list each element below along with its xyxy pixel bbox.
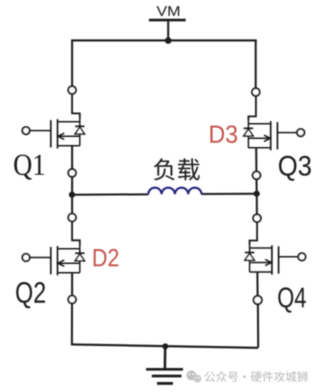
junction node A xyxy=(69,192,75,198)
wire Q3 drain jog xyxy=(248,96,256,120)
label D2 body diode xyxy=(94,249,107,266)
wire Q4 source lead xyxy=(256,272,258,296)
transistor Q1 N-MOSFET with body diode xyxy=(50,120,52,147)
top power rail xyxy=(71,39,257,41)
label D3 body diode xyxy=(210,126,224,143)
watermark text 公众号·硬件攻城狮 xyxy=(205,371,308,382)
inductor load coil xyxy=(148,188,201,195)
wire to node A xyxy=(71,177,73,195)
label 负载 (load) xyxy=(154,158,200,180)
wire Q4 drain jog xyxy=(250,222,258,244)
junction dot ground xyxy=(162,343,168,349)
transistor Q4 N-MOSFET with body diode xyxy=(278,246,280,273)
wire Q2 drain jog xyxy=(72,221,80,245)
wire to bottom rail xyxy=(71,303,73,344)
wire load to node B xyxy=(202,193,257,195)
watermark WeChat icon xyxy=(186,370,201,382)
wire Q1 source lead xyxy=(71,146,73,169)
ground symbol xyxy=(164,346,167,368)
label Q3 xyxy=(279,156,296,181)
terminal circle above Q2 xyxy=(68,214,76,222)
wire Q3 source lead xyxy=(255,148,257,172)
label Q1 xyxy=(14,155,32,180)
wire node A to load xyxy=(72,193,148,195)
terminal circle below Q3 xyxy=(253,171,261,179)
wire top rail to Q3 xyxy=(255,40,257,88)
transistor Q3 N-MOSFET with body diode xyxy=(276,122,278,149)
wire top rail to Q1 xyxy=(71,40,73,86)
wire to bottom rail xyxy=(257,304,259,347)
junction node B xyxy=(254,191,260,197)
wire node B to Q4 xyxy=(256,194,258,215)
terminal circle above Q3 xyxy=(252,88,260,96)
terminal circle above Q4 xyxy=(253,214,261,222)
label Q4 xyxy=(278,287,293,312)
terminal circle below Q1 xyxy=(68,169,76,177)
wire Q2 source lead xyxy=(71,273,73,296)
bottom rail xyxy=(71,344,258,347)
label Q2 xyxy=(16,282,32,308)
terminal circle above Q1 xyxy=(68,86,76,94)
transistor Q2 N-MOSFET with body diode xyxy=(50,247,52,274)
terminal circle below Q2 xyxy=(68,296,76,304)
VM supply symbol xyxy=(157,6,168,16)
wire Q1 drain jog xyxy=(72,94,80,118)
terminal circle below Q4 xyxy=(254,296,262,304)
wire to node B xyxy=(256,179,258,194)
wire node A to Q2 xyxy=(71,195,73,214)
junction dot VM / top rail xyxy=(165,37,172,44)
